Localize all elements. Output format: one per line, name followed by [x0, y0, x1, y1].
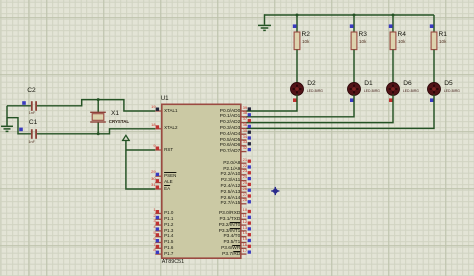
- LED D1: [348, 83, 361, 96]
- pin 29 (span class="ov"PSEN/span) left: [155, 175, 162, 177]
- LED D6: [387, 83, 400, 96]
- label U1: [161, 96, 169, 103]
- junction marker above R3: [350, 24, 354, 28]
- label D1: [364, 81, 372, 88]
- pin marker below D5: [430, 98, 434, 102]
- pin 33 (P0.6/AD6) right: [241, 145, 247, 147]
- wire R1 to D5: [433, 50, 435, 84]
- pin 30 (ALE) left: [155, 182, 162, 184]
- pin 7 (P1.6) left: [155, 247, 162, 249]
- origin marker: [272, 188, 279, 195]
- value D2 LED-BIRG: [307, 90, 323, 94]
- resistor R4: [390, 32, 396, 50]
- pin 9 (RST) left: [155, 149, 162, 151]
- pin 1 (P1.0) left: [155, 213, 162, 215]
- pin 19 (XTAL1) left: [155, 110, 162, 112]
- pin 15 (P3.5/T1) right: [241, 242, 247, 244]
- label C1: [29, 120, 37, 127]
- pin 14 (P3.4/T0) right: [241, 236, 247, 238]
- pin 24 (P2.3/A11) right: [241, 180, 247, 182]
- junction marker above R2: [293, 24, 297, 28]
- wire R4 to D6: [392, 50, 394, 84]
- wire D5 to P0.3: [247, 95, 435, 129]
- pin 11 (P3.1/TXD) right: [241, 218, 247, 220]
- wire D6 to P0.2: [247, 95, 394, 123]
- ground (top right): [258, 24, 271, 26]
- crystal X1: [92, 114, 104, 121]
- value D1 LED-BIRG: [364, 90, 380, 94]
- wire VCC to RST: [126, 149, 155, 151]
- label R2: [302, 32, 310, 39]
- wire C1 to XTAL2: [37, 129, 155, 134]
- value R2 10k: [302, 40, 309, 45]
- wire to ground / C1 left: [7, 106, 31, 134]
- pin marker C1: [19, 128, 23, 132]
- value R1 10k: [439, 40, 446, 45]
- wire D1 to P0.1: [247, 95, 355, 117]
- pin 23 (P2.2/A10) right: [241, 174, 247, 176]
- value AT89C51: [162, 260, 184, 266]
- pin 35 (P0.4/AD4) right: [241, 133, 247, 135]
- pin 3 (P1.2) left: [155, 224, 162, 226]
- LED D5: [428, 83, 441, 96]
- wire crystal bottom lead: [97, 122, 99, 134]
- wire D2 to P0.0: [247, 95, 298, 112]
- pin 16 (P3.6/span class="ov"WR/span) right: [241, 247, 247, 249]
- label D2: [307, 81, 315, 88]
- pin 26 (P2.5/A13) right: [241, 191, 247, 193]
- label R4: [398, 32, 406, 39]
- pin 32 (P0.7/AD7) right: [241, 151, 247, 153]
- wire ground stub: [264, 14, 266, 24]
- wire crystal top lead: [97, 100, 99, 113]
- pin 31 (span class="ov"EA/span) left: [155, 188, 162, 190]
- label X1: [111, 111, 119, 118]
- wire VCC to EA: [126, 141, 155, 190]
- wire bus to R1: [433, 15, 435, 32]
- pin marker below D2: [293, 98, 297, 102]
- pin 27 (P2.6/A14) right: [241, 197, 247, 199]
- label R1: [439, 32, 447, 39]
- junction marker above R4: [389, 24, 393, 28]
- capacitor C2: [31, 101, 33, 111]
- label C2: [27, 88, 35, 95]
- pin 34 (P0.5/AD5) right: [241, 139, 247, 141]
- value C1: [28, 140, 35, 144]
- pin 18 (XTAL2) left: [155, 128, 162, 130]
- value R4 10k: [398, 40, 405, 45]
- wire bus to R3: [353, 15, 355, 32]
- pin 38 (P0.1/AD1) right: [241, 116, 247, 118]
- wire bus to R2: [296, 15, 298, 32]
- wire C2 left: [7, 105, 31, 107]
- pin 37 (P0.2/AD2) right: [241, 122, 247, 124]
- value C2: [29, 111, 36, 115]
- MCU U1 AT89C51 body: [162, 104, 241, 258]
- value D6 LED-BIRG: [403, 90, 419, 94]
- pin 21 (P2.0/A8) right: [241, 162, 247, 164]
- label D5: [444, 81, 452, 88]
- resistor R1: [431, 32, 437, 50]
- pin 8 (P1.7) left: [155, 253, 162, 255]
- pin 17 (P3.7/span class="ov"RD/span) right: [241, 253, 247, 255]
- pin 6 (P1.5) left: [155, 242, 162, 244]
- pin 36 (P0.3/AD3) right: [241, 127, 247, 129]
- wire R3 to D1: [353, 50, 355, 84]
- pin 13 (P3.3/span class="ov"INT1/span) right: [241, 230, 247, 232]
- pin 28 (P2.7/A15) right: [241, 203, 247, 205]
- resistor R3: [351, 32, 357, 50]
- pin marker C2: [22, 101, 26, 105]
- wire bus to R4: [392, 15, 394, 32]
- wire top VCC-bus horizontal: [265, 14, 435, 16]
- label R3: [359, 32, 367, 39]
- pin marker below D6: [389, 98, 393, 102]
- junction marker above R1: [430, 24, 434, 28]
- pin 25 (P2.4/A12) right: [241, 185, 247, 187]
- value X1 CRYSTAL: [109, 120, 129, 125]
- wire C2 to XTAL1: [37, 100, 155, 111]
- power terminal VCC: [123, 135, 130, 140]
- pin marker below D1: [350, 98, 354, 102]
- pin 12 (P3.2/span class="ov"INT0/span) right: [241, 224, 247, 226]
- resistor R2: [294, 32, 300, 50]
- ground (left): [6, 118, 8, 126]
- pin 10 (P3.0/RXD) right: [241, 213, 247, 215]
- wire R2 to D2: [296, 50, 298, 84]
- label D6: [403, 81, 411, 88]
- pin 2 (P1.1) left: [155, 218, 162, 220]
- value D5 LED-BIRG: [444, 90, 460, 94]
- capacitor C1: [31, 129, 33, 139]
- pin 4 (P1.3) left: [155, 230, 162, 232]
- pin 22 (P2.1/A9) right: [241, 168, 247, 170]
- pin 5 (P1.4) left: [155, 236, 162, 238]
- value R3 10k: [359, 40, 366, 45]
- pin 39 (P0.0/AD0) right: [241, 110, 247, 112]
- LED D2: [291, 83, 304, 96]
